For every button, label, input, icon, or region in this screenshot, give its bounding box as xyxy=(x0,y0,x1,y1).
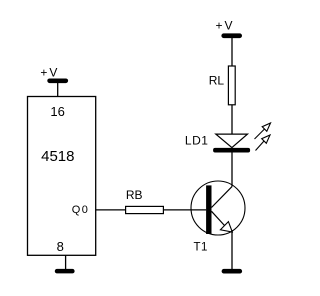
svg-text:16: 16 xyxy=(50,104,64,119)
svg-text:Q0: Q0 xyxy=(72,204,90,216)
svg-text:+V: +V xyxy=(40,66,59,80)
svg-text:8: 8 xyxy=(57,239,64,254)
svg-text:RB: RB xyxy=(126,188,143,202)
svg-text:4518: 4518 xyxy=(41,148,74,165)
svg-text:RL: RL xyxy=(209,74,225,88)
svg-text:T1: T1 xyxy=(194,242,208,254)
svg-text:LD1: LD1 xyxy=(185,134,209,148)
svg-text:+V: +V xyxy=(216,18,235,32)
